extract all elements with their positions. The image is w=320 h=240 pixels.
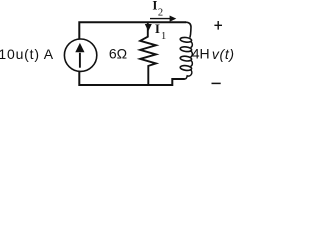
wire top [79, 22, 186, 39]
wire bottom with step [79, 72, 185, 85]
svg-text:I: I [152, 0, 157, 12]
arrow I2 (right, above wire) [150, 16, 176, 22]
arrow I1 (down, on resistor lead) [145, 24, 152, 31]
current source IS [64, 39, 96, 71]
svg-text:4H: 4H [192, 45, 210, 61]
resistor R 6ohm [140, 23, 156, 84]
plus sign [214, 21, 222, 30]
svg-text:I: I [155, 21, 160, 36]
label I1 [155, 21, 166, 42]
inductor L coil [180, 22, 192, 79]
svg-text:10u(t) A: 10u(t) A [0, 46, 54, 62]
minus sign [212, 82, 221, 84]
label I2 [152, 0, 163, 19]
svg-text:1: 1 [161, 31, 166, 42]
svg-text:2: 2 [158, 8, 163, 19]
svg-text:6Ω: 6Ω [109, 45, 127, 61]
svg-text:v(t): v(t) [212, 46, 235, 62]
